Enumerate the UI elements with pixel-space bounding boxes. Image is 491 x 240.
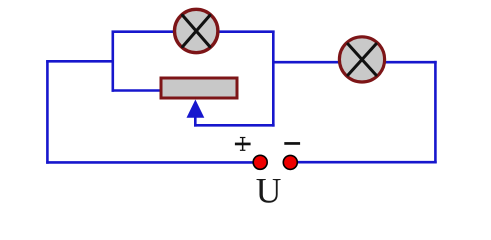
lamp L1	[175, 9, 218, 52]
wire: wiper bottom horizontal	[194, 124, 275, 127]
wiper arrow shaft	[194, 114, 197, 127]
wire: outer right vertical	[434, 61, 437, 163]
wire: bottom left horizontal to + terminal	[46, 161, 256, 164]
minus label	[284, 142, 300, 145]
rheostat R	[161, 78, 237, 98]
battery + terminal dot	[253, 155, 267, 169]
wire: horizontal through lamp L2	[273, 61, 436, 64]
wire: outer left vertical	[46, 60, 49, 164]
lamp L2	[339, 37, 384, 82]
wire: parallel-block right vertical	[272, 31, 275, 127]
wire: parallel-block left vertical	[112, 31, 115, 92]
battery - terminal dot	[283, 155, 297, 169]
wire: rheostat branch horizontal	[112, 89, 162, 92]
wire: bottom right horizontal from - terminal	[295, 161, 437, 164]
plus label	[235, 137, 251, 151]
wire: top branch horizontal through lamp L1	[112, 30, 275, 33]
svg-text:U: U	[256, 170, 282, 210]
wire: left T-junction horizontal	[46, 60, 114, 63]
wiper arrowhead	[187, 100, 205, 118]
